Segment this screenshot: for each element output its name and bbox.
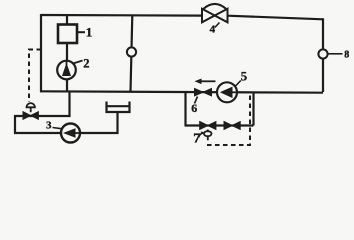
valve V4 open bowtie with dome	[202, 4, 228, 36]
svg-text:6: 6	[191, 101, 197, 115]
circle 8 on right rail	[318, 49, 327, 58]
svg-text:2: 2	[83, 57, 89, 71]
wire bypass bottom line	[185, 124, 254, 126]
sensor circle on middle vertical	[127, 47, 136, 56]
valve V3 bowtie	[23, 112, 38, 120]
wire main horizontal line	[40, 91, 323, 92]
component box 1	[58, 25, 77, 44]
wire box1-pump2 vertical	[66, 15, 68, 92]
valve V7a bowtie	[200, 122, 216, 130]
wire dashed capillary left	[29, 50, 41, 103]
svg-text:7: 7	[193, 131, 200, 146]
wire right rail	[322, 18, 324, 92]
valve V6 bowtie	[195, 89, 212, 96]
lead line label 1	[78, 31, 86, 33]
wire top line right segment	[228, 16, 324, 20]
wire top line left segment	[41, 14, 203, 17]
arrow above valve 6	[195, 79, 216, 85]
svg-text:1: 1	[86, 25, 93, 40]
svg-text:5: 5	[241, 69, 248, 84]
lead line label 2	[73, 61, 83, 64]
valve V7b bowtie	[224, 122, 240, 130]
lead line label 8	[328, 53, 343, 55]
lead line label 6	[195, 97, 198, 104]
expansion valve V3 actuator dome	[27, 103, 35, 112]
wire middle vertical	[131, 16, 133, 93]
lead line label 5	[236, 81, 241, 87]
pump P5	[217, 82, 237, 102]
svg-text:8: 8	[344, 50, 349, 61]
pump P2	[57, 61, 76, 80]
pump P3	[61, 124, 80, 143]
tank (open expansion tank)	[107, 102, 130, 113]
lead line label 7 arrow	[199, 133, 204, 138]
svg-text:4: 4	[210, 23, 216, 35]
wire pump2 drop leg below main line	[15, 92, 118, 133]
lead line label 3	[53, 128, 63, 129]
valve V7 actuator dome below	[204, 130, 212, 141]
wire bypass left vertical	[184, 92, 186, 126]
wire dashed capillary right	[206, 96, 250, 146]
wire bypass right vertical	[252, 92, 254, 126]
lead line label 4	[215, 23, 220, 28]
wire left rail	[40, 14, 42, 92]
svg-text:3: 3	[46, 119, 52, 131]
